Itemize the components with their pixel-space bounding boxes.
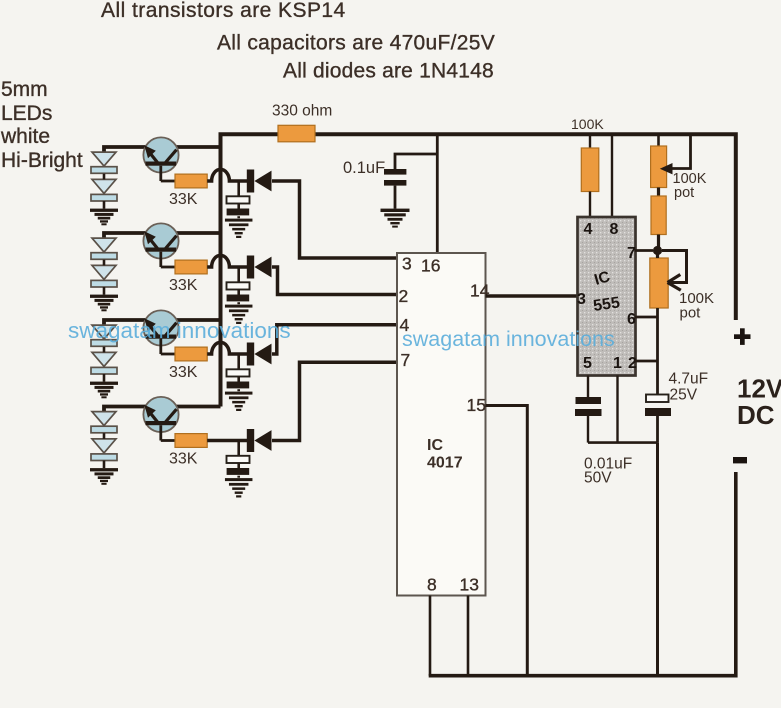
svg-text:6: 6 [627,311,636,328]
svg-text:5mm: 5mm [1,78,48,101]
svg-text:swagatam innovations: swagatam innovations [402,327,615,351]
svg-text:4.7uF: 4.7uF [669,371,709,388]
svg-text:330 ohm: 330 ohm [272,103,332,120]
svg-text:2: 2 [399,286,409,306]
svg-text:white: white [0,125,50,148]
svg-text:1: 1 [613,355,622,372]
svg-text:5: 5 [583,355,592,372]
svg-text:LEDs: LEDs [1,102,52,125]
svg-text:pot: pot [680,305,702,322]
svg-text:IC: IC [427,437,443,454]
svg-text:swagatam innovations: swagatam innovations [68,318,291,343]
svg-text:33K: 33K [169,451,198,468]
svg-text:DC: DC [737,400,775,430]
svg-text:15: 15 [467,395,486,415]
svg-text:0.1uF: 0.1uF [343,159,385,177]
svg-text:33K: 33K [169,191,198,208]
svg-text:7: 7 [627,245,636,262]
svg-text:7: 7 [401,350,411,370]
svg-text:33K: 33K [169,364,198,381]
svg-text:4: 4 [584,221,593,238]
svg-text:13: 13 [460,575,479,595]
svg-text:All diodes are 1N4148: All diodes are 1N4148 [283,60,494,83]
svg-text:All transistors are KSP14: All transistors are KSP14 [101,0,346,22]
svg-text:8: 8 [427,575,437,595]
svg-text:50V: 50V [584,470,612,487]
svg-text:4017: 4017 [427,455,463,472]
svg-text:8: 8 [610,221,619,238]
svg-text:25V: 25V [670,387,698,404]
svg-text:3: 3 [402,254,412,274]
svg-text:2: 2 [628,355,637,372]
svg-text:33K: 33K [169,277,198,294]
svg-text:16: 16 [421,256,440,276]
svg-text:pot: pot [674,185,694,201]
svg-text:3: 3 [577,291,586,308]
svg-text:12V: 12V [737,374,781,404]
svg-text:All capacitors are 470uF/25V: All capacitors are 470uF/25V [217,32,495,55]
svg-text:100K: 100K [571,116,604,132]
svg-text:Hi-Bright: Hi-Bright [1,149,83,172]
